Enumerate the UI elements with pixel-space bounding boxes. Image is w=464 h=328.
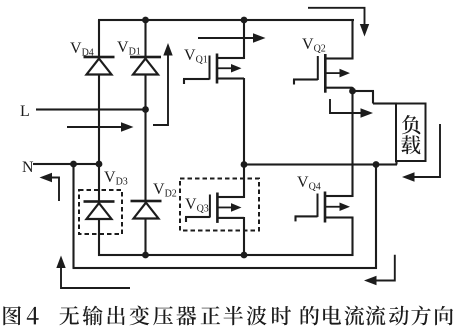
- wire second leg vertical (VD1/VD2 branch): [144, 20, 146, 256]
- wire load top step: from VQ2 source node right: [353, 90, 375, 92]
- current arrow right, under L input: [67, 126, 121, 128]
- svg-text:N: N: [22, 159, 34, 176]
- wire load bottom corner stub: [395, 160, 397, 165]
- current arrow up, bottom left return: [61, 268, 130, 288]
- dashed box around VQ3: [180, 179, 259, 231]
- wire left leg vertical (VD4/VD3 branch): [98, 20, 100, 256]
- current arrow left, right of load: [415, 124, 441, 177]
- wire VQ1 source to VQ3 drain: [243, 78, 245, 198]
- wire top bus: [98, 19, 354, 21]
- load label: zai: [401, 135, 420, 154]
- caption: figure 4 title: [3, 306, 453, 326]
- diode VD2: [131, 200, 162, 219]
- junction mid wire / VQ1-VQ3 leg: [241, 161, 248, 168]
- svg-text:VQ2: VQ2: [302, 36, 326, 55]
- junction bottom bus / VQ3 leg: [241, 252, 248, 259]
- junction L / VD1-VD2 leg: [142, 106, 149, 113]
- current arrow down, top right above VQ2: [308, 8, 365, 24]
- current arrow up, right of VD1: [153, 56, 168, 126]
- svg-text:VQ4: VQ4: [297, 174, 321, 193]
- diode VD1: [130, 56, 161, 75]
- wire mid node to load bottom: [244, 163, 397, 165]
- wire VQ2 drain to top bus corner: [351, 19, 353, 60]
- svg-text:VD1: VD1: [117, 39, 141, 58]
- current arrow right, top middle toward VQ1 leg: [198, 37, 253, 39]
- wire bottom bus: [98, 254, 354, 256]
- transistor VQ1 (MOSFET): [183, 54, 244, 85]
- current arrow left, bottom right return: [377, 255, 395, 281]
- wire VQ2 source to VQ4 drain: [351, 87, 353, 197]
- transistor VQ4 (MOSFET): [294, 192, 352, 223]
- diode VD4: [84, 56, 115, 75]
- junction top bus / VQ1 leg: [241, 17, 248, 24]
- load label: fu: [402, 115, 420, 134]
- wire return: up to N node: [72, 164, 74, 268]
- svg-text:VQ1: VQ1: [184, 47, 208, 66]
- wire VQ3 source to bottom bus: [243, 217, 245, 256]
- junction top bus / VD1 leg: [142, 17, 149, 24]
- svg-text:VD3: VD3: [104, 169, 128, 188]
- current arrow left, under N input: [52, 178, 59, 202]
- transistor VQ3 (MOSFET): [185, 193, 244, 223]
- junction N / VD4-VD3 leg: [96, 161, 103, 168]
- transistor VQ2 (MOSFET): [293, 54, 353, 93]
- node N input wire: [33, 163, 99, 165]
- wire VQ1 drain to top bus: [243, 20, 245, 59]
- node L input wire: [36, 108, 146, 110]
- wire return: down from load bottom node: [375, 165, 377, 270]
- load box (fu zai): [396, 104, 426, 162]
- wire return: bottom horizontal: [73, 267, 378, 269]
- junction load bottom / return: [373, 161, 380, 168]
- wire load top step: right to load: [373, 102, 397, 104]
- junction VQ2 source / load top: [349, 88, 356, 95]
- junction N / return wire: [70, 161, 77, 168]
- junction bottom bus / VD2 leg: [142, 252, 149, 259]
- svg-text:VD4: VD4: [70, 40, 94, 59]
- diode VD3: [84, 200, 115, 219]
- svg-text:L: L: [20, 103, 30, 120]
- svg-text:VQ3: VQ3: [185, 196, 209, 215]
- current arrow right, into load top: [330, 99, 361, 113]
- wire load top step: down: [372, 91, 374, 104]
- dashed box around VD3: [79, 190, 122, 234]
- wire VQ4 source to bottom bus: [351, 217, 353, 257]
- svg-text:VD2: VD2: [153, 181, 177, 200]
